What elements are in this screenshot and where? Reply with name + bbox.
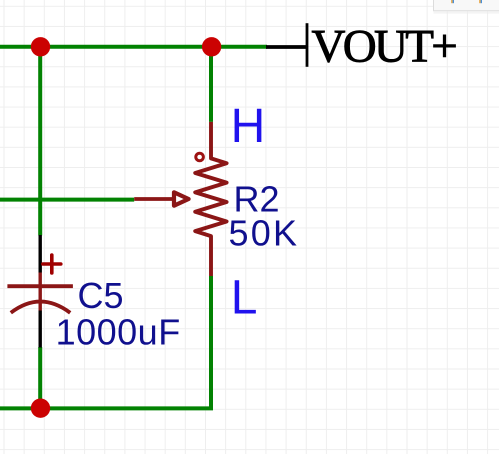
junction dot left top bbox=[31, 37, 50, 56]
wire R2 bottom vertical bbox=[209, 276, 213, 408]
wire R2 top vertical bbox=[209, 47, 213, 122]
wire left vertical to C5 top bbox=[38, 47, 42, 236]
toolbar fragment top right bbox=[434, 0, 499, 14]
svg-text:C5: C5 bbox=[78, 275, 124, 316]
port VOUT+ lead line bbox=[266, 45, 307, 49]
R2 pin 3 wiper dot bbox=[196, 153, 204, 161]
C5 pin2 stub bbox=[39, 302, 42, 311]
port VOUT+ bar bbox=[306, 23, 309, 67]
wire bottom horizontal rail bbox=[0, 406, 213, 410]
R2 wiper arrow shaft bbox=[134, 197, 172, 201]
svg-text:VOUT+: VOUT+ bbox=[312, 21, 457, 73]
svg-text:H: H bbox=[231, 100, 266, 153]
wire C5 bottom to ground rail bbox=[38, 347, 42, 408]
svg-text:1000uF: 1000uF bbox=[56, 311, 181, 352]
wire top horizontal net bbox=[0, 45, 267, 49]
C5 plus sign bbox=[43, 255, 61, 273]
C5 bottom pin (black) bbox=[39, 311, 42, 348]
junction dot bottom bbox=[31, 399, 50, 418]
C5 top plate bbox=[7, 284, 73, 288]
junction dot right top bbox=[202, 37, 221, 56]
svg-text:L: L bbox=[231, 271, 258, 324]
C5 bottom plate arc bbox=[11, 302, 70, 313]
svg-text:50K: 50K bbox=[229, 213, 300, 254]
potentiometer R2 body (zigzag) bbox=[195, 122, 226, 276]
R2 wiper arrow head bbox=[174, 192, 189, 205]
capacitor C5 top pin (black) bbox=[39, 235, 42, 273]
wire middle horizontal to wiper arrow bbox=[0, 198, 134, 202]
C5 pin1 stub bbox=[39, 273, 42, 303]
